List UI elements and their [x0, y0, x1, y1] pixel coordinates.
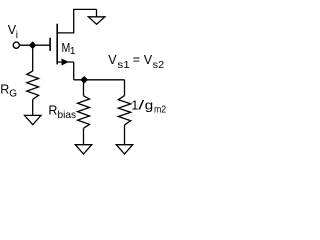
wire R_G bottom	[32, 99, 34, 115]
node A junction dot (gate node)	[29, 42, 36, 48]
resistor R_bias	[78, 96, 90, 128]
ground R_bias	[75, 145, 91, 154]
svg-text:G: G	[9, 89, 17, 100]
svg-text:V: V	[144, 53, 153, 67]
transistor M1 gate bar	[49, 38, 51, 51]
svg-text:s2: s2	[153, 60, 165, 71]
ground supply at drain	[88, 17, 104, 24]
svg-text:=: =	[133, 53, 140, 67]
wire gate (terminal to gate bar)	[20, 44, 51, 46]
resistor R_G	[27, 71, 39, 99]
wire R_bias bottom	[83, 128, 85, 145]
wire R_G top	[32, 45, 34, 71]
svg-text:V: V	[108, 53, 117, 67]
svg-text:i: i	[16, 30, 18, 41]
node Vs junction dot	[81, 77, 88, 83]
power stub at drain (AC ground)	[96, 9, 98, 16]
svg-text:bias: bias	[58, 109, 77, 121]
input terminal Vi	[13, 42, 19, 48]
svg-text:s1: s1	[117, 60, 130, 71]
svg-text:R: R	[48, 104, 57, 118]
svg-text:g: g	[145, 99, 154, 113]
svg-text:m2: m2	[154, 105, 167, 116]
wire 1/gm2 top	[124, 80, 126, 96]
wire source down to node	[73, 62, 75, 80]
wire 1/gm2 bottom	[124, 125, 126, 145]
wire drain tap	[57, 32, 73, 34]
ground 1/gm2	[116, 145, 132, 154]
transistor M1 source arrow	[62, 59, 68, 64]
wire R_bias top	[83, 80, 85, 96]
svg-text:1: 1	[131, 99, 138, 113]
wire source node rail	[74, 79, 125, 81]
svg-text:1: 1	[70, 46, 76, 57]
transistor M1 channel bar	[56, 24, 58, 65]
svg-text:R: R	[0, 83, 9, 97]
ground R_G	[25, 115, 42, 124]
wire source tap	[57, 61, 73, 63]
wire drain up to supply	[74, 9, 97, 33]
resistor 1/gm2	[118, 96, 130, 125]
